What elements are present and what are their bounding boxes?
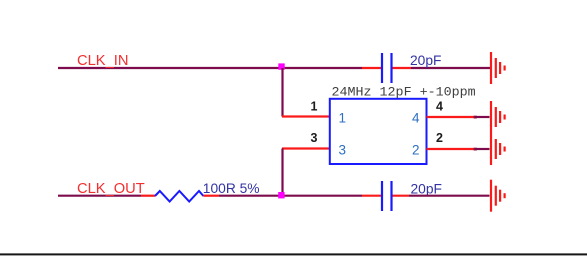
ground (pin 4) <box>491 101 505 133</box>
svg-text:3: 3 <box>339 143 347 158</box>
capacitor C1 plates <box>381 53 383 83</box>
crystal Y1 pin 3 <box>282 147 330 149</box>
svg-text:100R 5%: 100R 5% <box>203 181 260 196</box>
junction A (CLK_IN to crystal) <box>278 63 284 69</box>
wire vertical junction A to pin 1 <box>281 68 283 117</box>
svg-text:4: 4 <box>412 110 420 125</box>
svg-text:4: 4 <box>436 100 443 114</box>
resistor R1 pin stub right <box>203 195 219 197</box>
capacitor C1 pin stub right <box>393 67 412 69</box>
wire pin 4 to ground <box>475 116 490 118</box>
ground (pin 2) <box>491 133 505 165</box>
svg-text:2: 2 <box>412 143 420 158</box>
resistor R1 pin stub left <box>141 195 155 197</box>
sheet border bottom line <box>0 253 587 255</box>
svg-text:CLK_OUT: CLK_OUT <box>77 181 145 197</box>
svg-text:20pF: 20pF <box>410 53 441 68</box>
svg-text:20pF: 20pF <box>411 181 442 196</box>
crystal Y1 pin 1 <box>282 115 330 117</box>
svg-text:1: 1 <box>311 100 318 114</box>
capacitor C2 pin stub left <box>362 195 381 197</box>
svg-text:3: 3 <box>311 131 318 145</box>
svg-text:24MHz 12pF +-10ppm: 24MHz 12pF +-10ppm <box>332 85 476 100</box>
capacitor C2 pin stub right <box>393 195 410 197</box>
wire CLK_OUT left <box>58 195 141 197</box>
capacitor C1 pin stub left <box>362 67 381 69</box>
wire pin 2 to ground <box>475 148 490 150</box>
wire vertical pin 3 to junction B <box>281 149 283 196</box>
crystal Y1 body <box>330 99 427 164</box>
svg-text:CLK_IN: CLK_IN <box>77 53 128 69</box>
wire CLK_OUT middle <box>219 195 362 197</box>
wire CLK_IN cap to ground <box>411 67 490 69</box>
resistor R1 zigzag <box>155 191 203 202</box>
capacitor C2 plates <box>381 181 383 211</box>
ground (bottom right) <box>491 180 505 212</box>
pin 2 end dot <box>474 148 477 151</box>
crystal Y1 pin 4 <box>427 116 475 118</box>
wire CLK_OUT cap to ground <box>409 195 490 197</box>
junction B (CLK_OUT to crystal) <box>278 192 284 198</box>
svg-text:2: 2 <box>436 131 443 145</box>
svg-text:1: 1 <box>339 110 347 125</box>
ground (top right) <box>491 52 505 84</box>
pin 4 end dot <box>474 116 477 119</box>
crystal Y1 pin 2 <box>427 148 475 150</box>
wire CLK_IN horizontal net <box>58 67 362 69</box>
